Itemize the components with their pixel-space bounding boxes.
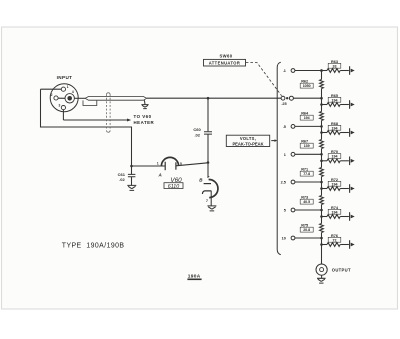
- capacitor C61: [131, 166, 133, 174]
- switch contact 10: [291, 236, 295, 240]
- svg-text:194: 194: [332, 98, 338, 102]
- node junction bus/.1: [320, 69, 323, 72]
- resistor R70 (shunt output): [322, 160, 328, 162]
- svg-text:.02: .02: [194, 132, 200, 137]
- wire divider bus: [321, 71, 323, 265]
- svg-text:194: 194: [304, 116, 310, 120]
- wire node to diode B plate: [207, 163, 209, 178]
- off-page terminal arrow: [349, 66, 351, 75]
- wire contact .1 to bus: [295, 70, 322, 72]
- diode V60B cathode: [202, 191, 211, 194]
- wire to diode A plate: [132, 165, 166, 167]
- diode V60A cathode: [175, 162, 177, 169]
- tube type 6110 box: [164, 183, 183, 189]
- resistor R76 (shunt output): [322, 244, 328, 246]
- svg-text:77.8: 77.8: [303, 172, 310, 176]
- pin 2 of J60: [54, 96, 58, 100]
- svg-text:194: 194: [332, 210, 338, 214]
- svg-text:5: 5: [284, 209, 286, 213]
- connector J60 INPUT body: [50, 84, 78, 112]
- node junction bus/.5: [320, 125, 323, 128]
- node junction bus/R63: [320, 69, 323, 72]
- svg-text:20.8: 20.8: [303, 228, 310, 232]
- wire contact 10 to bus: [295, 237, 322, 239]
- dashed mechanical linkage: [246, 63, 282, 96]
- wire connector shell to ground: [321, 275, 323, 278]
- switch wafer bracket: [277, 62, 281, 255]
- node junction at C60 bottom: [207, 161, 210, 164]
- wire contact 5 to bus: [295, 209, 322, 211]
- svg-text:194: 194: [332, 155, 338, 159]
- node junction bus/R70: [320, 160, 323, 163]
- switch contact 5: [291, 208, 295, 212]
- connector J61 OUTPUT: [316, 264, 327, 275]
- mechanical link arrow: [271, 140, 275, 142]
- wire center pin to coax: [74, 97, 85, 99]
- resistor R63 (shunt output): [322, 70, 328, 72]
- node junction at C61: [130, 165, 133, 168]
- svg-text:33: 33: [333, 64, 337, 68]
- svg-text:TYPE 190A/190B: TYPE 190A/190B: [62, 243, 125, 250]
- node junction bus/10: [320, 237, 323, 240]
- svg-text:.25: .25: [281, 102, 286, 106]
- off-page terminal arrow: [349, 240, 351, 249]
- svg-text:.5: .5: [283, 125, 286, 129]
- wire pin2 to pin4: [58, 97, 65, 99]
- node junction bus/R72: [320, 187, 323, 190]
- node junction bus/R74: [320, 215, 323, 218]
- resistor R72 (shunt output): [322, 188, 328, 190]
- svg-text:1: 1: [284, 153, 286, 157]
- svg-text:A: A: [158, 172, 162, 177]
- node junction bus/1: [320, 153, 323, 156]
- svg-text:TO V60: TO V60: [134, 114, 152, 119]
- svg-text:SW60: SW60: [219, 54, 232, 59]
- switch name box ATTENUATOR: [204, 59, 246, 66]
- resistor R71 (series): [320, 168, 324, 177]
- wire pin1 to left loop: [41, 88, 62, 90]
- wire wiper to bus: [293, 97, 321, 99]
- wire contact .5 to bus: [295, 125, 322, 127]
- pin tick at diode B: [207, 176, 209, 177]
- cable shield marker: [107, 93, 111, 132]
- pin 4 (center contact) of J60: [65, 94, 74, 103]
- wire left loop down and across to C61 node: [41, 89, 132, 166]
- coax cable clamp: [83, 100, 97, 105]
- resistor R62 (series): [320, 80, 324, 89]
- resistor R65 (shunt output): [322, 104, 328, 106]
- diode V60A plate: [164, 162, 166, 171]
- svg-text:194: 194: [332, 182, 338, 186]
- resistor R74 (shunt output): [322, 216, 328, 218]
- resistor R64 (series): [320, 112, 324, 121]
- ground (C61): [127, 185, 136, 190]
- node junction bus/R76: [320, 243, 323, 246]
- resistor R67 (series): [320, 140, 324, 149]
- wire cathode A to node: [176, 163, 208, 166]
- svg-text:72: 72: [333, 238, 337, 242]
- switch contact .5: [291, 125, 295, 129]
- resistor R68 (shunt output): [322, 132, 328, 134]
- ground (V60B cathode): [207, 206, 216, 211]
- switch contact 1: [291, 152, 295, 156]
- svg-text:PEAK-TO-PEAK: PEAK-TO-PEAK: [232, 141, 263, 146]
- wire braid to ground: [143, 100, 146, 104]
- svg-text:2.5: 2.5: [281, 181, 286, 185]
- off-page terminal arrow: [349, 184, 351, 193]
- svg-text:ATTENUATOR: ATTENUATOR: [209, 61, 241, 66]
- diode V60A envelope arc: [161, 157, 178, 166]
- node junction bus/R68: [320, 131, 323, 134]
- svg-text:2: 2: [51, 93, 53, 97]
- ground (coax shield): [141, 105, 148, 109]
- wire coax to switch wiper: [147, 97, 282, 99]
- pin 3 of J60: [61, 106, 65, 110]
- svg-text:OUTPUT: OUTPUT: [332, 268, 351, 273]
- switch wiper contacts: [281, 96, 285, 100]
- node junction bus/R65: [320, 103, 323, 106]
- switch contact .1: [291, 69, 295, 73]
- svg-text:.02: .02: [119, 177, 125, 182]
- off-page terminal arrow: [349, 212, 351, 221]
- svg-text:.1: .1: [283, 69, 286, 73]
- svg-text:C60: C60: [193, 127, 201, 132]
- svg-text:1: 1: [67, 85, 69, 89]
- capacitor C60: [207, 98, 209, 131]
- diode V60B envelope arc: [209, 179, 218, 197]
- node junction bus/2.5: [320, 181, 323, 184]
- svg-text:INPUT: INPUT: [57, 75, 73, 80]
- off-page terminal arrow: [349, 128, 351, 137]
- node junction at C60 top: [207, 97, 210, 100]
- off-page terminal arrow: [349, 100, 351, 109]
- svg-text:7: 7: [206, 199, 208, 203]
- off-page terminal arrow: [349, 157, 351, 166]
- svg-text:10: 10: [282, 237, 286, 241]
- control label VOLTS PEAK-TO-PEAK: [226, 135, 269, 146]
- wire pin3 down: [62, 110, 64, 120]
- svg-text:1050: 1050: [303, 84, 311, 88]
- wire cathode B to ground: [210, 191, 212, 206]
- resistor R75 (series): [320, 224, 324, 233]
- wire to V60 heater: [63, 119, 127, 121]
- node junction bus/5: [320, 209, 323, 212]
- svg-text:3: 3: [59, 104, 61, 108]
- svg-text:4: 4: [72, 90, 74, 94]
- wire contact 2.5 to bus: [295, 181, 322, 183]
- svg-text:6110: 6110: [168, 184, 179, 190]
- svg-text:139: 139: [304, 144, 310, 148]
- node junction wiper/bus: [320, 97, 323, 100]
- ground (OUTPUT): [317, 278, 326, 283]
- svg-text:194: 194: [332, 126, 338, 130]
- switch contact 2.5: [291, 180, 295, 184]
- coax shield braid: [85, 97, 146, 101]
- svg-text:1: 1: [157, 162, 159, 166]
- pin 1 of J60: [61, 87, 65, 91]
- svg-text:HEATER: HEATER: [134, 120, 155, 125]
- svg-text:40.5: 40.5: [303, 200, 310, 204]
- resistor R73 (series): [320, 196, 324, 205]
- diode V60B plate: [204, 183, 211, 185]
- wire contact 1 to bus: [295, 153, 322, 155]
